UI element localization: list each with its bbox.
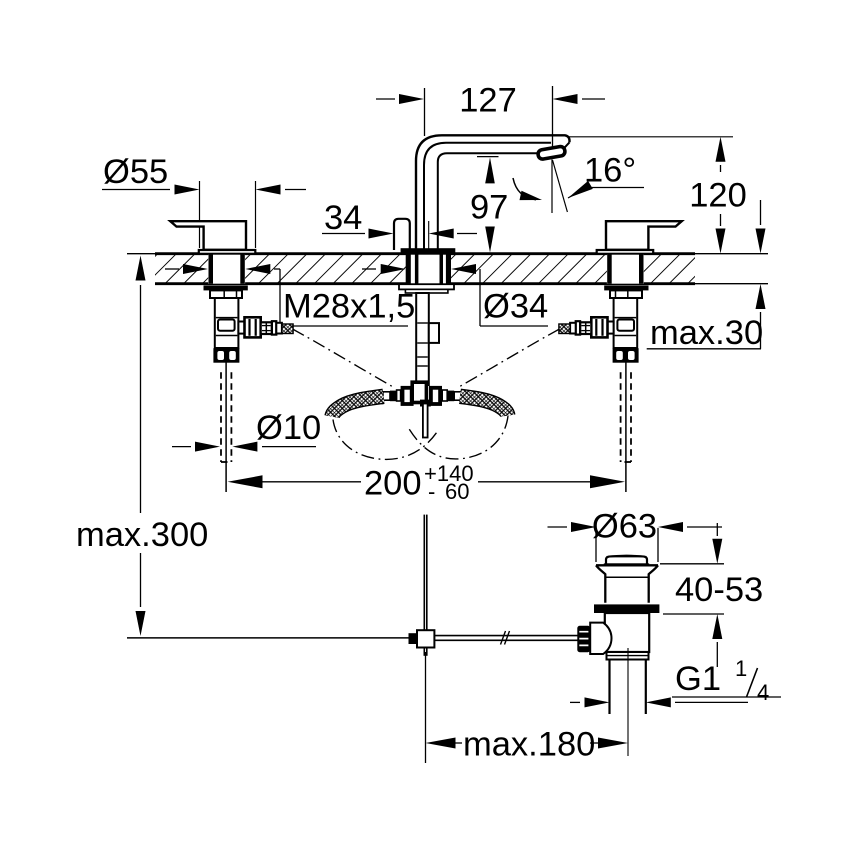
svg-text:-: - [428, 479, 435, 504]
svg-text:127: 127 [459, 82, 517, 120]
svg-text:Ø10: Ø10 [256, 409, 321, 447]
svg-text:120: 120 [689, 177, 747, 215]
svg-text:Ø34: Ø34 [483, 288, 548, 326]
svg-text:34: 34 [324, 199, 362, 237]
svg-text:M28x1,5: M28x1,5 [283, 288, 415, 326]
svg-text:40-53: 40-53 [675, 571, 763, 609]
svg-text:60: 60 [445, 479, 469, 504]
svg-text:97: 97 [470, 189, 508, 227]
svg-text:Ø55: Ø55 [103, 153, 168, 191]
svg-text:16°: 16° [584, 152, 636, 190]
svg-text:G1: G1 [675, 660, 721, 698]
svg-text:1: 1 [735, 656, 747, 681]
svg-text:Ø63: Ø63 [592, 508, 657, 546]
svg-text:max.300: max.300 [76, 516, 208, 554]
svg-text:max.180: max.180 [463, 726, 595, 764]
svg-text:4: 4 [757, 680, 769, 705]
svg-text:200: 200 [364, 465, 422, 503]
svg-text:max.30: max.30 [650, 314, 763, 352]
